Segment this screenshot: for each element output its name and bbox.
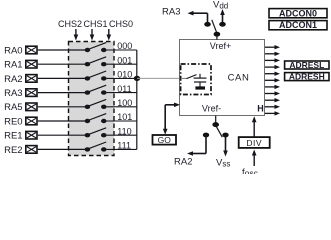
wire channel 000 to bus — [107, 49, 137, 51]
svg-text:RA2: RA2 — [174, 157, 192, 168]
power Vss — [216, 158, 230, 169]
register ADRESH — [285, 72, 329, 82]
result bus arrow bit 0 — [265, 111, 280, 115]
wire channel 101 to bus — [107, 120, 137, 122]
svg-text:001: 001 — [117, 55, 132, 65]
input pin RE0 — [4, 116, 37, 127]
svg-text:RA3: RA3 — [4, 88, 22, 99]
mux switch channel 011 — [85, 85, 107, 95]
node label 011 — [117, 84, 131, 94]
svg-text:RE1: RE1 — [4, 131, 22, 142]
svg-text:ADCON0: ADCON0 — [279, 8, 317, 18]
node label 001 — [117, 55, 132, 65]
wire GO to ADC — [163, 103, 180, 135]
result bus arrow bit 4 — [265, 85, 280, 89]
svg-text:ADRESL: ADRESL — [289, 60, 324, 70]
mux switch channel 101 — [85, 114, 107, 124]
svg-text:Vref+: Vref+ — [210, 41, 231, 51]
register ADCON1 — [269, 20, 327, 30]
svg-text:fosc: fosc — [242, 167, 259, 174]
analog multiplexer box — [69, 42, 115, 156]
wire fosc to DIV — [252, 150, 257, 167]
wire channel 111 to bus — [107, 148, 137, 150]
Vref+ selector switch — [212, 20, 220, 40]
wire Vss arrow — [223, 135, 228, 157]
svg-text:000: 000 — [117, 41, 132, 51]
wire channel 011 to bus — [107, 92, 137, 94]
result bus arrow bit 6 — [265, 72, 280, 76]
svg-text:RA2: RA2 — [4, 74, 22, 85]
svg-text:RA3: RA3 — [162, 7, 180, 18]
wire channel 001 to bus — [107, 63, 137, 65]
svg-text:011: 011 — [117, 84, 131, 94]
svg-text:ADCON1: ADCON1 — [279, 20, 317, 30]
svg-text:RA1: RA1 — [4, 60, 22, 71]
node label 010 — [117, 70, 132, 80]
svg-text:CAN: CAN — [228, 73, 250, 84]
wire RA0 to switch — [38, 49, 88, 51]
net CHS1 — [84, 19, 108, 41]
node label 101 — [117, 112, 132, 122]
mux output bus — [136, 50, 138, 149]
svg-text:010: 010 — [117, 70, 132, 80]
input pin RE2 — [4, 145, 37, 156]
svg-text:CHS1: CHS1 — [84, 19, 108, 29]
result bus arrow bit 3 — [265, 91, 280, 95]
svg-text:RA0: RA0 — [4, 45, 22, 56]
result bus arrow bit 5 — [265, 78, 280, 82]
svg-text:Vss: Vss — [216, 158, 230, 169]
register ADCON0 — [269, 8, 327, 18]
wire RA3 arrow — [188, 11, 208, 23]
node RA2 contact — [203, 133, 209, 138]
svg-text:ADRESH: ADRESH — [289, 72, 325, 82]
svg-text:DIV: DIV — [246, 138, 262, 148]
node label 110 — [117, 126, 131, 136]
wire RE1 to switch — [38, 134, 88, 136]
node RA3 contact — [204, 22, 211, 27]
svg-text:100: 100 — [117, 98, 132, 108]
sample-and-hold box — [181, 64, 211, 95]
svg-text:CHS2: CHS2 — [58, 19, 82, 29]
junction node mux output — [134, 76, 140, 81]
register ADRESL — [285, 60, 329, 70]
svg-text:Vref-: Vref- — [202, 104, 221, 114]
hold capacitor — [194, 74, 207, 87]
node Vss contact — [222, 133, 228, 138]
svg-text:RE0: RE0 — [4, 116, 22, 127]
svg-text:101: 101 — [117, 112, 132, 122]
input pin RA0 — [4, 45, 37, 56]
mux switch channel 010 — [85, 71, 107, 81]
wire RA5 to switch — [38, 106, 88, 108]
mux switch channel 111 — [85, 142, 107, 152]
svg-text:GO: GO — [158, 135, 172, 145]
result bus arrow bit 1 — [265, 105, 280, 109]
pin RA3 — [162, 7, 180, 18]
input pin RA1 — [4, 60, 37, 71]
wire RE0 to switch — [38, 120, 88, 122]
node label 100 — [117, 98, 132, 108]
divider DIV — [239, 137, 270, 148]
mux switch channel 001 — [85, 57, 107, 67]
input pin RA5 — [4, 102, 37, 113]
wire RA2 arrow — [187, 135, 206, 156]
wire channel 010 to bus — [107, 77, 137, 79]
net fosc — [242, 167, 259, 178]
wire channel 110 to bus — [107, 134, 137, 136]
wire RE2 to switch — [38, 148, 88, 150]
svg-text:110: 110 — [117, 126, 131, 136]
wire RA3 to switch — [38, 92, 88, 94]
wire RA2 to switch — [38, 77, 88, 79]
input pin RE1 — [4, 131, 37, 142]
svg-text:111: 111 — [117, 141, 131, 151]
input pin RA2 — [4, 74, 37, 85]
net CHS0 — [107, 19, 134, 41]
wire Vdd arrow — [220, 9, 225, 23]
svg-text:RE2: RE2 — [4, 145, 22, 156]
svg-text:RA5: RA5 — [4, 102, 22, 113]
svg-text:Vdd: Vdd — [213, 0, 228, 11]
power Vdd — [213, 0, 228, 11]
Vref- selector switch — [212, 116, 222, 138]
ADC block CAN — [180, 40, 265, 116]
wire channel 100 to bus — [107, 106, 137, 108]
net CHS2 — [58, 19, 82, 41]
result bus arrow bit 10 — [265, 45, 280, 49]
mux switch channel 000 — [85, 43, 107, 53]
svg-text:H: H — [257, 104, 264, 114]
pin RA2 — [174, 157, 192, 168]
node Vdd contact — [219, 22, 226, 27]
result bus arrow bit 9 — [265, 52, 280, 56]
result bus arrow bit 7 — [265, 65, 280, 69]
mux switch channel 110 — [85, 128, 107, 138]
mux switch channel 100 — [85, 99, 107, 109]
wire mux output to sample-hold — [137, 77, 187, 79]
result bus arrow bit 8 — [265, 58, 280, 62]
wire DIV to ADC — [252, 116, 257, 137]
sampling switch — [181, 75, 197, 79]
input pin RA3 — [4, 88, 37, 99]
ground — [195, 86, 205, 89]
register GO — [153, 135, 177, 145]
node label 000 — [117, 41, 132, 51]
svg-text:CHS0: CHS0 — [109, 19, 133, 29]
result bus arrow bit 2 — [265, 98, 280, 102]
node label 111 — [117, 141, 131, 151]
wire RA1 to switch — [38, 63, 88, 65]
